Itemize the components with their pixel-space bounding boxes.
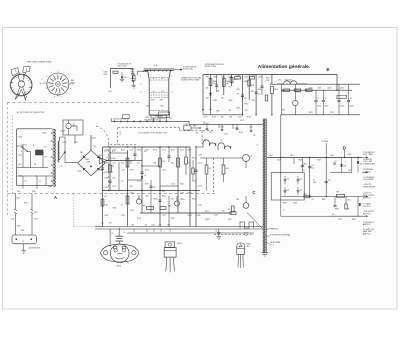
svg-text:C807: C807 (245, 77, 249, 79)
svg-text:C107: C107 (130, 150, 134, 152)
svg-text:F102: F102 (17, 198, 21, 200)
svg-text:R103: R103 (43, 133, 47, 135)
svg-text:560: 560 (153, 187, 156, 189)
svg-text:R125: R125 (145, 184, 149, 186)
svg-text:TO JUNCTION OF: TO JUNCTION OF (118, 63, 131, 65)
svg-text:HORIZ DRIVER: HORIZ DRIVER (363, 187, 376, 189)
svg-text:C837: C837 (338, 219, 342, 221)
svg-text:C111: C111 (162, 150, 166, 152)
svg-text:L803: L803 (330, 155, 334, 157)
svg-text:R521 & C530: R521 & C530 (183, 69, 193, 71)
svg-text:R805: R805 (229, 77, 233, 79)
svg-text:R827: R827 (318, 160, 322, 162)
svg-text:8: 8 (54, 96, 55, 98)
svg-text:TO FUSE: TO FUSE (322, 141, 329, 143)
svg-text:115: 115 (44, 147, 47, 149)
svg-text:C139: C139 (197, 215, 201, 217)
svg-text:R61: R61 (109, 222, 112, 224)
svg-text:R13: R13 (113, 186, 116, 188)
svg-text:R111: R111 (153, 150, 157, 152)
svg-text:TR103: TR103 (153, 199, 158, 201)
svg-text:+: + (320, 96, 321, 98)
svg-text:R131: R131 (162, 196, 166, 198)
svg-text:1N4: 1N4 (99, 155, 102, 157)
svg-text:TR2: TR2 (168, 205, 171, 207)
svg-text:B: B (21, 151, 22, 153)
svg-text:CONTROL: CONTROL (363, 171, 371, 173)
svg-text:47: 47 (283, 210, 285, 212)
svg-text:R41: R41 (209, 168, 212, 170)
svg-text:COLL TR801: COLL TR801 (363, 154, 373, 156)
svg-text:TH101: TH101 (61, 131, 66, 133)
svg-text:L805: L805 (348, 154, 352, 156)
svg-text:+: + (345, 96, 346, 98)
svg-text:3: 3 (46, 76, 47, 78)
svg-text:12p: 12p (253, 135, 256, 137)
svg-text:R159: R159 (212, 117, 216, 119)
svg-text:0.15: 0.15 (124, 77, 127, 79)
svg-text:0-4: 0-4 (39, 181, 41, 183)
svg-text:A: A (54, 195, 57, 200)
svg-text:2: 2 (64, 72, 65, 74)
svg-text:R101: R101 (24, 203, 28, 205)
svg-text:C815: C815 (252, 100, 256, 102)
svg-text:R137: R137 (105, 215, 109, 217)
svg-text:C74: C74 (300, 189, 303, 191)
svg-text:+: + (336, 96, 337, 98)
svg-text:R809: R809 (252, 75, 256, 77)
svg-text:F101: F101 (18, 164, 22, 166)
svg-text:330: 330 (171, 163, 174, 165)
svg-text:1000: 1000 (104, 172, 108, 174)
svg-text:C1: C1 (216, 230, 218, 232)
svg-text:R21: R21 (162, 161, 165, 163)
svg-text:UPPER ELECTRON GUN: UPPER ELECTRON GUN (205, 64, 224, 66)
svg-text:C105: C105 (105, 150, 109, 152)
svg-text:R833: R833 (335, 209, 339, 211)
svg-text:9: 9 (49, 93, 50, 95)
svg-text:R135: R135 (113, 208, 117, 210)
svg-text:E: E (326, 67, 329, 72)
svg-text:C810: C810 (236, 89, 240, 91)
svg-text:P101: P101 (34, 212, 38, 214)
svg-text:R141: R141 (171, 218, 175, 220)
svg-text:75: 75 (350, 98, 352, 100)
svg-text:TR101: TR101 (177, 243, 182, 245)
svg-text:LOWER PLATE: LOWER PLATE (363, 163, 376, 166)
svg-text:C75: C75 (312, 165, 315, 167)
svg-text:R109: R109 (137, 150, 141, 152)
svg-text:+B VOLTAGES ON PC BOARD ONLY: +B VOLTAGES ON PC BOARD ONLY (137, 132, 168, 135)
svg-text:+: + (303, 96, 304, 98)
svg-text:C145: C145 (198, 205, 202, 207)
svg-text:.017: .017 (159, 224, 162, 226)
svg-text:R418: R418 (104, 74, 108, 76)
svg-text:C825: C825 (340, 88, 344, 90)
svg-text:R813: R813 (245, 104, 249, 106)
svg-text:P102: P102 (17, 226, 21, 228)
svg-text:± DF: ± DF (108, 91, 112, 93)
svg-text:L251: L251 (74, 142, 78, 144)
svg-text:C: C (252, 190, 255, 195)
svg-text:+B: +B (73, 123, 75, 125)
svg-text:V3: V3 (250, 156, 252, 158)
svg-text:HEF: HEF (193, 126, 196, 128)
svg-text:R821: R821 (309, 112, 313, 114)
svg-text:.047: .047 (244, 98, 247, 100)
svg-text:C71: C71 (287, 178, 290, 180)
svg-text:1000: 1000 (105, 187, 109, 189)
svg-text:R143: R143 (188, 215, 192, 217)
svg-text:.022: .022 (245, 110, 248, 112)
svg-text:10: 10 (313, 180, 315, 182)
svg-text:T2: T2 (257, 145, 259, 147)
svg-text:R817: R817 (266, 78, 270, 80)
svg-text:C153: C153 (214, 215, 218, 217)
svg-text:1: 1 (45, 88, 46, 90)
svg-text:R133: R133 (188, 193, 192, 195)
svg-text:V1: V1 (204, 140, 206, 142)
svg-text:C819: C819 (309, 88, 313, 90)
svg-text:TR107: TR107 (205, 219, 210, 221)
svg-text:C137: C137 (162, 215, 166, 217)
svg-text:C72: C72 (300, 178, 303, 180)
svg-text:C141: C141 (198, 163, 202, 165)
svg-text:P402: P402 (131, 72, 135, 74)
svg-text:R829: R829 (283, 203, 287, 205)
svg-text:160V: 160V (313, 182, 316, 184)
svg-text:7: 7 (61, 96, 62, 98)
svg-text:C135: C135 (121, 215, 125, 217)
svg-text:C835: C835 (347, 200, 351, 202)
svg-text:R804: R804 (226, 81, 230, 83)
svg-text:Alimentation générale.: Alimentation générale. (258, 64, 311, 70)
svg-text:R47: R47 (228, 209, 231, 211)
svg-text:470: 470 (229, 110, 232, 112)
svg-text:R127: R127 (180, 184, 184, 186)
svg-text:10µ: 10µ (312, 167, 315, 169)
svg-text:C61: C61 (101, 222, 104, 224)
svg-text:6: 6 (66, 93, 67, 95)
svg-text:R153: R153 (240, 120, 244, 122)
svg-text:SOCKET OF PICT TUBE: SOCKET OF PICT TUBE (181, 80, 199, 82)
svg-text:T101: T101 (48, 186, 52, 188)
svg-text:C817: C817 (278, 80, 282, 82)
svg-text:COIL THERM: COIL THERM (363, 179, 374, 181)
svg-text:75: 75 (325, 98, 327, 100)
svg-text:5: 5 (70, 88, 71, 90)
svg-text:AMP PC5: AMP PC5 (363, 223, 370, 226)
svg-text:V2: V2 (220, 140, 222, 142)
svg-text:R163: R163 (247, 117, 251, 119)
svg-text:AC SET LINE VOLT SELECTOR: AC SET LINE VOLT SELECTOR (17, 111, 45, 114)
svg-text:33p: 33p (221, 117, 224, 119)
svg-text:TR8: TR8 (348, 170, 351, 172)
svg-text:100: 100 (171, 199, 174, 201)
svg-text:R157: R157 (228, 219, 232, 221)
svg-text:T404: T404 (104, 71, 108, 73)
svg-text:C109: C109 (145, 150, 149, 152)
svg-text:F801: F801 (185, 124, 189, 126)
svg-text:3: 3 (68, 76, 69, 78)
svg-text:P901: P901 (146, 117, 150, 119)
svg-text:C113: C113 (180, 150, 184, 152)
svg-text:100: 100 (137, 163, 140, 165)
svg-text:C21: C21 (162, 191, 165, 193)
svg-text:R139: R139 (137, 218, 141, 220)
svg-text:R806: R806 (244, 81, 248, 83)
svg-text:R51: R51 (132, 224, 135, 226)
svg-text:R825: R825 (299, 160, 303, 162)
svg-text:C811: C811 (206, 98, 210, 100)
svg-text:D101: D101 (78, 170, 82, 172)
svg-text:C157: C157 (238, 117, 242, 119)
svg-text:4: 4 (51, 72, 52, 74)
svg-text:R31: R31 (143, 205, 146, 207)
svg-text:D81: D81 (344, 166, 347, 168)
svg-text:TO JUNCTION OF: TO JUNCTION OF (183, 66, 196, 68)
svg-text:R145: R145 (192, 158, 196, 160)
svg-text:R113: R113 (171, 150, 175, 152)
svg-text:S102: S102 (19, 137, 23, 139)
svg-text:R807: R807 (237, 75, 241, 77)
svg-text:V901: V901 (151, 100, 155, 102)
svg-text:R107: R107 (121, 150, 125, 152)
svg-text:C821: C821 (318, 88, 322, 90)
svg-text:C76: C76 (328, 180, 331, 182)
svg-text:PC 2: PC 2 (270, 244, 274, 246)
svg-text:75: 75 (317, 98, 319, 100)
svg-text:25: 25 (303, 170, 305, 172)
svg-text:H4: H4 (162, 78, 164, 80)
svg-text:C829: C829 (290, 155, 294, 157)
svg-text:C1: C1 (119, 131, 121, 133)
svg-text:R810: R810 (274, 89, 278, 91)
svg-text:R119: R119 (130, 170, 134, 172)
svg-text:10: 10 (121, 181, 123, 183)
svg-text:R823: R823 (269, 155, 273, 157)
svg-text:R17: R17 (144, 151, 147, 153)
svg-text:G4: G4 (162, 91, 164, 93)
svg-text:TR5: TR5 (236, 199, 239, 201)
svg-text:R815: R815 (237, 108, 241, 110)
svg-text:.01: .01 (144, 175, 146, 177)
svg-text:C823: C823 (328, 88, 332, 90)
svg-text:R155: R155 (205, 211, 209, 213)
svg-text:C2: C2 (119, 134, 121, 136)
svg-text:TR101: TR101 (117, 266, 122, 268)
svg-text:R105: R105 (113, 150, 117, 152)
svg-text:G2: G2 (153, 91, 155, 93)
svg-text:470: 470 (222, 211, 225, 213)
svg-text:R115: R115 (188, 150, 192, 152)
svg-text:R147: R147 (192, 181, 196, 183)
svg-text:R89: R89 (337, 192, 340, 194)
svg-text:R123: R123 (105, 178, 109, 180)
svg-text:L801 0.5H: L801 0.5H (285, 80, 292, 82)
svg-text:75: 75 (340, 98, 342, 100)
svg-text:H1: H1 (153, 78, 155, 80)
svg-text:L85: L85 (332, 214, 335, 216)
svg-text:REG PC3: REG PC3 (363, 214, 370, 216)
svg-text:R161: R161 (111, 166, 115, 168)
svg-text:C159: C159 (224, 134, 228, 136)
svg-text:C101: C101 (11, 219, 15, 221)
svg-text:C110: C110 (93, 146, 97, 148)
svg-text:HEATERS: HEATERS (270, 227, 279, 230)
svg-text:X101: X101 (209, 132, 213, 134)
svg-text:LINE CORD CONNECTIONS: LINE CORD CONNECTIONS (27, 62, 53, 64)
svg-text:C73: C73 (287, 189, 290, 191)
svg-text:0-8: 0-8 (25, 181, 27, 183)
svg-text:CRT: CRT (160, 100, 163, 102)
svg-text:C131: C131 (105, 205, 109, 207)
svg-text:TR401: TR401 (246, 243, 251, 245)
svg-text:C117: C117 (105, 163, 109, 165)
svg-text:R802: R802 (213, 81, 217, 83)
svg-text:TR105: TR105 (180, 199, 185, 201)
svg-text:C125: C125 (171, 184, 175, 186)
svg-text:C806: C806 (258, 89, 262, 91)
svg-text:C123: C123 (137, 181, 141, 183)
svg-text:HV RECT V801: HV RECT V801 (205, 66, 216, 68)
svg-text:1000: 1000 (152, 224, 155, 226)
svg-text:L101: L101 (19, 155, 23, 157)
svg-text:AMP PC4: AMP PC4 (363, 196, 370, 199)
svg-text:R15: R15 (130, 161, 133, 163)
svg-text:C801: C801 (206, 77, 210, 79)
svg-text:R831: R831 (322, 199, 326, 201)
svg-text:C133: C133 (130, 210, 134, 212)
svg-text:E: E (112, 233, 113, 235)
svg-text:680: 680 (217, 91, 220, 93)
svg-text:R819: R819 (282, 91, 286, 93)
svg-text:*: * (128, 262, 129, 266)
svg-text:R811: R811 (214, 100, 218, 102)
svg-text:230: 230 (44, 157, 47, 159)
svg-text:C143: C143 (198, 186, 202, 188)
svg-text:R415 & C419: R415 & C419 (118, 66, 128, 68)
svg-text:C13: C13 (104, 196, 107, 198)
svg-text:NON PROJECT NEUTRAL: NON PROJECT NEUTRAL (270, 233, 290, 236)
svg-text:S101: S101 (21, 230, 25, 232)
svg-text:C121: C121 (162, 170, 166, 172)
svg-text:0.1µ: 0.1µ (244, 235, 247, 237)
svg-text:C813: C813 (229, 100, 233, 102)
svg-text:C127: C127 (145, 196, 149, 198)
svg-text:R129: R129 (130, 193, 134, 195)
svg-text:.01: .01 (258, 94, 260, 96)
svg-text:TB101: TB101 (85, 159, 90, 161)
svg-text:C129: C129 (180, 193, 184, 195)
svg-text:C805: C805 (221, 77, 225, 79)
svg-text:C119: C119 (121, 170, 125, 172)
svg-text:C155: C155 (203, 117, 207, 119)
svg-text:B: B (124, 232, 125, 234)
svg-text:L902: L902 (160, 106, 164, 108)
svg-text:R835: R835 (352, 219, 356, 221)
svg-text:SW101: SW101 (22, 145, 27, 147)
svg-text:R151: R151 (221, 127, 225, 129)
svg-text:C827: C827 (277, 160, 281, 162)
svg-text:C833: C833 (293, 203, 297, 205)
svg-text:R171: R171 (63, 142, 67, 144)
svg-text:1: 1 (57, 71, 58, 73)
svg-text:R88: R88 (304, 194, 307, 196)
svg-text:C11: C11 (104, 151, 107, 153)
svg-text:LINE: LINE (70, 80, 73, 82)
svg-text:AMP PC4: AMP PC4 (363, 233, 370, 236)
svg-text:C41: C41 (145, 224, 148, 226)
svg-text:R121: R121 (145, 170, 149, 172)
svg-text:R165: R165 (239, 132, 243, 134)
svg-text:+: + (313, 96, 314, 98)
svg-text:R10: R10 (100, 170, 103, 172)
svg-text:C103: C103 (34, 219, 38, 221)
svg-text:C809: C809 (258, 77, 262, 79)
svg-text:R43: R43 (226, 168, 229, 170)
svg-text:1: 1 (42, 79, 43, 81)
svg-text:47: 47 (121, 205, 123, 207)
svg-text:OUT PC2: OUT PC2 (363, 206, 370, 208)
svg-text:R149: R149 (192, 199, 196, 201)
